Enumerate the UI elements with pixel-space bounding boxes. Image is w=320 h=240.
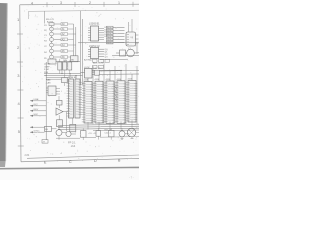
address bus vertical pair right of flags <box>74 24 76 56</box>
trimmer capacitor C7 <box>116 50 126 56</box>
signal flag A0 <box>61 23 68 26</box>
svg-text:4116: 4116 <box>106 79 111 81</box>
label row RAS/CAS <box>46 79 51 85</box>
svg-text:SER1: SER1 <box>107 31 113 33</box>
connector J1 box <box>45 126 57 131</box>
gate cluster D2 <box>58 59 72 76</box>
bypass capacitor C10 <box>81 128 87 137</box>
scanner edge strip (left) <box>0 3 7 167</box>
inverter A3 (triangle) <box>56 105 68 115</box>
svg-text:4116: 4116 <box>84 80 89 82</box>
long wire left vertical <box>45 62 47 140</box>
page bottom edge shadow <box>0 167 139 168</box>
IC U6 (ROM) <box>67 79 74 118</box>
frame inner bottom border <box>27 155 139 158</box>
svg-text:RES': RES' <box>34 109 39 111</box>
signal flag A5 <box>61 50 68 53</box>
wire from mux row <box>100 58 128 60</box>
svg-text:SER2: SER2 <box>107 34 113 36</box>
svg-text:3: 3 <box>60 1 62 5</box>
signal arrow video <box>30 126 45 128</box>
RAM U10 <box>115 81 126 124</box>
zone numbers left margin <box>17 17 21 134</box>
svg-text:- 7 -: - 7 - <box>129 176 134 180</box>
IC U5 latch <box>81 67 140 78</box>
IC U6b (ROM hi) <box>75 79 82 118</box>
filter box L1 <box>70 118 76 132</box>
capacitor C2 row <box>50 41 62 47</box>
svg-text:SER5: SER5 <box>107 43 113 45</box>
resistor R5 row <box>50 53 62 59</box>
svg-text:AX RA0: AX RA0 <box>84 59 93 62</box>
svg-text:+5V +12: +5V +12 <box>88 133 97 135</box>
svg-text:AUX CONN: AUX CONN <box>93 61 105 64</box>
IC U3 (video mixer) <box>126 19 139 54</box>
transistor Q2 <box>66 131 76 136</box>
RAM bottom stubs to bus <box>88 120 132 129</box>
zone letters bottom margin <box>44 159 121 165</box>
label row COLOR REF <box>44 64 51 74</box>
wire: vertical drop to input chain <box>44 11 46 23</box>
resistor R1 row <box>49 23 61 26</box>
diode CR1 <box>109 128 115 139</box>
wire bottom bus extension <box>93 129 139 132</box>
zone tick marks left border <box>17 34 24 146</box>
vertical feeds to RAM row <box>62 62 132 86</box>
svg-text:2.84: 2.84 <box>25 154 30 157</box>
resistor pack RP2 diagonal marks <box>115 86 118 101</box>
svg-text:CAS': CAS' <box>46 81 51 84</box>
svg-text:RA1 MUX: RA1 MUX <box>93 67 103 70</box>
address lines between RAM columns <box>93 64 137 124</box>
svg-text:4116: 4116 <box>117 79 122 81</box>
svg-text:Q3 7M: Q3 7M <box>44 64 51 66</box>
resistor R3 row <box>50 36 62 42</box>
svg-text:ROM E8: ROM E8 <box>68 77 77 79</box>
signal flag A1 <box>61 28 68 31</box>
svg-text:14M: 14M <box>63 60 67 62</box>
svg-text:C12 .1: C12 .1 <box>105 132 112 134</box>
ground stubs below transistors <box>59 136 132 140</box>
svg-text:4116: 4116 <box>95 79 100 81</box>
capacitor C11 <box>96 128 101 136</box>
RAM U8 <box>93 81 104 123</box>
frame outer bottom border <box>21 158 139 161</box>
signal flag A2 <box>61 33 68 36</box>
wire under aux2 <box>84 69 122 71</box>
signal flag column to video <box>107 26 114 44</box>
RAM U7 <box>82 82 93 124</box>
svg-text:SER0: SER0 <box>107 28 113 30</box>
svg-text:D: D <box>94 159 97 163</box>
capacitor C1 row <box>50 31 62 36</box>
wire lower right of crystal <box>112 54 139 56</box>
svg-text:DMA': DMA' <box>34 98 40 101</box>
note J7 <box>42 140 48 144</box>
signal arrow sync <box>30 131 45 134</box>
resistor R2 row <box>50 26 62 31</box>
component value labels left of chain <box>44 25 48 60</box>
U4 output wires and labels <box>99 49 105 56</box>
zone tick marks top border <box>47 2 133 7</box>
zone numbers top margin <box>31 1 120 6</box>
timing chain: gate box <box>57 96 63 105</box>
signal arrow RES <box>30 109 46 112</box>
mux label row <box>84 59 105 65</box>
junction dots on bus <box>46 73 77 76</box>
oscillator gate B2 <box>48 59 80 64</box>
svg-text:4: 4 <box>31 1 33 5</box>
frame outer top border <box>20 3 139 6</box>
svg-text:CREF: CREF <box>44 66 50 68</box>
signal arrow DMA <box>30 98 46 102</box>
svg-text:SER3: SER3 <box>107 37 113 39</box>
svg-text:SER4: SER4 <box>107 40 113 42</box>
IC U2 <box>88 26 99 41</box>
gate D4 <box>92 70 100 75</box>
svg-text:SYNC: SYNC <box>34 131 40 133</box>
crystal Y1 <box>126 48 140 57</box>
ground <box>121 139 134 140</box>
svg-text:J14: J14 <box>71 144 76 148</box>
buffer box B5 <box>71 56 79 62</box>
data bus lines below RAM <box>58 124 139 129</box>
svg-text:1: 1 <box>118 1 120 5</box>
long wire across upper right <box>78 41 139 44</box>
resistor R4 row <box>50 47 62 53</box>
extra bus segment <box>46 78 68 80</box>
scan noise specks <box>21 6 138 160</box>
latch U12 <box>46 86 60 95</box>
connector P1 <box>127 128 139 136</box>
RAM U9 <box>104 81 115 124</box>
signal arrow NMI <box>30 114 46 117</box>
signal flag A6 <box>61 56 68 59</box>
svg-text:2: 2 <box>89 1 91 5</box>
svg-text:C: C <box>69 160 72 164</box>
horizontal bus pair center <box>44 74 83 76</box>
svg-text:LS365 B1: LS365 B1 <box>89 23 100 26</box>
signal flag A4 <box>61 44 68 47</box>
frame outer left border <box>20 5 21 162</box>
label cluster X1 <box>105 130 113 135</box>
wire bottom row to edge <box>56 112 96 139</box>
note FP 2:1 <box>68 141 76 148</box>
top bus wire <box>29 10 139 19</box>
signal arrow IRQ <box>30 104 46 107</box>
flip-flop box B10 <box>57 115 63 126</box>
gate box D3 <box>62 76 68 86</box>
wire flag taps <box>68 24 76 57</box>
svg-text:4116: 4116 <box>128 79 133 81</box>
bus wire pair vertical center <box>81 11 83 85</box>
U2 output wires and labels <box>99 28 105 39</box>
RAM U11 <box>126 81 137 123</box>
svg-text:IRQ': IRQ' <box>34 104 39 106</box>
svg-text:NMI': NMI' <box>34 114 39 116</box>
transistor Q3 <box>119 128 129 137</box>
signal flag A3 <box>61 38 68 41</box>
wire bottom interconnect <box>100 136 139 139</box>
IC U4 <box>88 47 99 58</box>
transistor Q1 <box>56 127 66 136</box>
aux flag boxes <box>93 59 110 68</box>
